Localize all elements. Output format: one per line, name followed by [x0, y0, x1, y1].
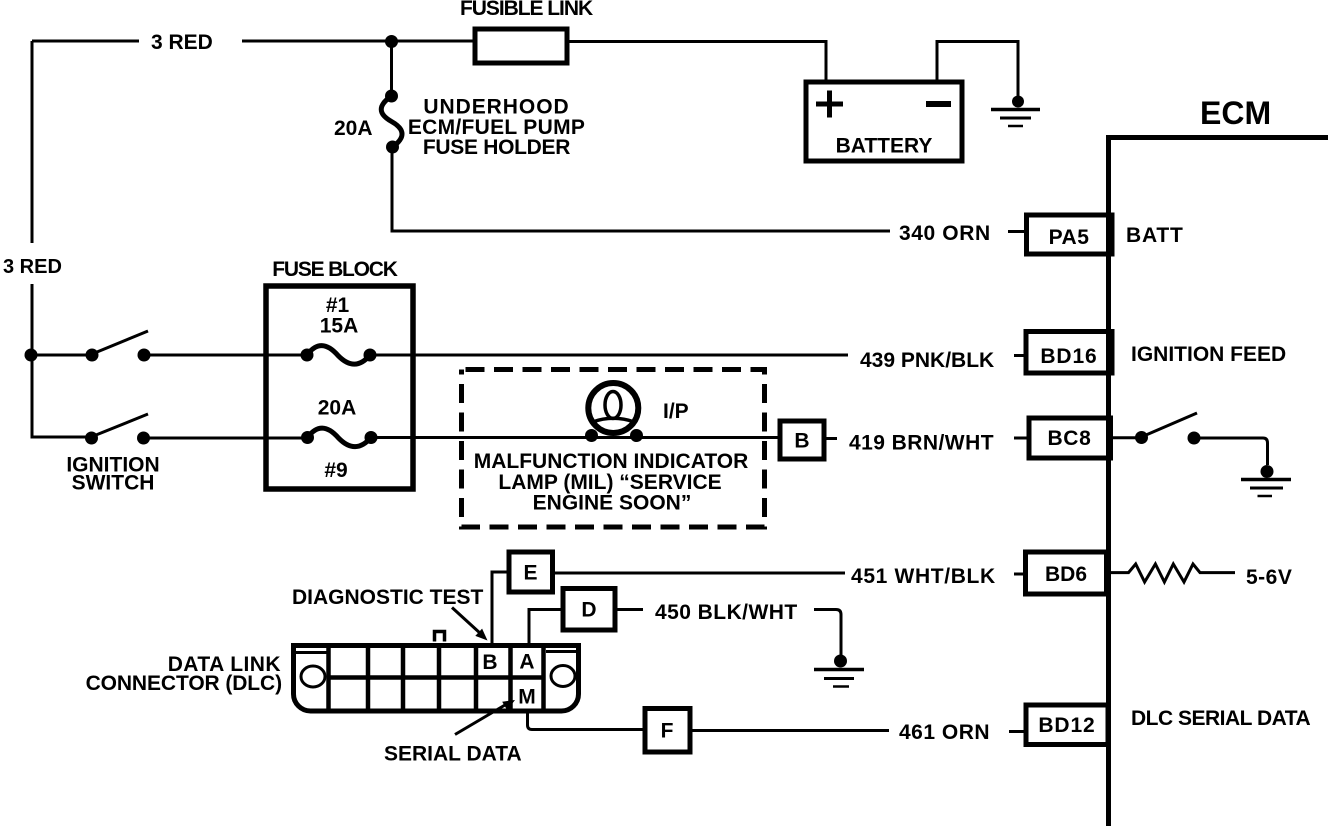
wire B lead right: [824, 437, 837, 440]
DLC grid: [329, 646, 544, 712]
wire 450 to ground: [814, 610, 841, 656]
wire fusible link to battery: [567, 42, 826, 83]
node fuse holder top: [385, 90, 398, 103]
ignition switch pole 2: [85, 414, 150, 445]
arrow diagnostic test to pin B: [452, 608, 488, 641]
fuse #1 15A: [301, 346, 377, 365]
switch inside ECM (BC8 to ground): [1111, 413, 1268, 465]
arrow serial data to pin M: [455, 700, 515, 735]
connector D (in-line): [563, 589, 615, 631]
wire lead dash to BD6: [1014, 573, 1026, 576]
label MALFUNCTION INDICATOR LAMP (MIL) "SERVICE ENGINE SOON": [474, 450, 749, 515]
svg-text:BD12: BD12: [1038, 714, 1095, 737]
svg-text:FUSIBLE LINK: FUSIBLE LINK: [460, 0, 593, 20]
DLC left cap line: [296, 651, 328, 654]
battery minus terminal: [926, 101, 951, 107]
svg-text:I/P: I/P: [663, 400, 689, 423]
svg-text:BD6: BD6: [1045, 563, 1087, 586]
svg-text:ENGINE SOON”: ENGINE SOON”: [533, 492, 692, 515]
svg-text:BATT: BATT: [1126, 224, 1184, 247]
svg-text:20A: 20A: [334, 117, 373, 140]
svg-text:5-6V: 5-6V: [1246, 566, 1292, 589]
svg-text:SWITCH: SWITCH: [72, 472, 155, 495]
svg-text:BATTERY: BATTERY: [836, 135, 933, 158]
fuse 20A underhood holder: [381, 96, 402, 147]
wire battery negative to ground: [937, 42, 1018, 98]
svg-text:A: A: [519, 651, 534, 674]
battery plus terminal: [816, 91, 843, 118]
wire DLC pin M to F: [528, 711, 646, 730]
ground G2: [1241, 465, 1291, 496]
svg-text:BC8: BC8: [1047, 427, 1091, 450]
svg-text:461 ORN: 461 ORN: [899, 721, 990, 744]
svg-text:CONNECTOR (DLC): CONNECTOR (DLC): [86, 672, 282, 695]
fuse #9 20A: [301, 428, 378, 447]
resistor pull-up 5-6V: [1111, 564, 1235, 582]
wire top-left horizontal (3 RED feed): [32, 40, 475, 43]
node lamp left: [585, 429, 598, 442]
fuse block outline: [266, 286, 413, 489]
svg-text:BD16: BD16: [1040, 345, 1097, 368]
svg-text:SERIAL DATA: SERIAL DATA: [384, 743, 522, 766]
connector B (in-line): [780, 421, 824, 459]
svg-text:450 BLK/WHT: 450 BLK/WHT: [655, 601, 798, 624]
DLC left mounting hole: [301, 666, 325, 687]
svg-text:FUSE BLOCK: FUSE BLOCK: [272, 258, 398, 281]
wire switch1 to fuse block: [144, 354, 307, 357]
ECM module outline: [1109, 138, 1328, 827]
node lamp right: [630, 429, 643, 442]
svg-text:E: E: [523, 562, 537, 585]
svg-text:IGNITION FEED: IGNITION FEED: [1131, 343, 1286, 366]
lamp MIL: [588, 383, 638, 433]
DLC connector body: [294, 646, 579, 712]
wire fuse1 to BD16 (439 PNK/BLK): [370, 354, 848, 357]
wire lead dash to BD16: [1014, 354, 1026, 357]
node left rail junction: [25, 349, 38, 362]
wire E left lead down to DLC pin B: [492, 572, 509, 643]
wire fuse holder to PA5 (340 ORN): [392, 147, 890, 231]
svg-text:M: M: [518, 686, 536, 709]
DLC right cap line: [546, 650, 576, 653]
svg-text:20A: 20A: [318, 397, 357, 420]
connector pin BD16: [1026, 332, 1112, 374]
svg-text:419 BRN/WHT: 419 BRN/WHT: [849, 432, 994, 455]
svg-text:B: B: [482, 651, 497, 674]
svg-text:MALFUNCTION INDICATOR: MALFUNCTION INDICATOR: [474, 450, 749, 473]
connector pin BC8: [1029, 418, 1111, 458]
svg-text:451 WHT/BLK: 451 WHT/BLK: [851, 565, 996, 588]
svg-text:DIAGNOSTIC TEST: DIAGNOSTIC TEST: [292, 586, 484, 609]
wire left rail to ignition switch 1: [32, 354, 86, 357]
wire E to BD6 (451 WHT/BLK): [553, 572, 846, 575]
svg-text:3 RED: 3 RED: [3, 256, 62, 278]
connector pin BD6: [1026, 552, 1107, 594]
wire switch2 to fuse block: [144, 437, 308, 440]
svg-text:FUSE HOLDER: FUSE HOLDER: [423, 136, 570, 159]
ground G1: [991, 96, 1040, 127]
svg-text:ECM: ECM: [1200, 95, 1271, 131]
connector pin PA5: [1027, 215, 1113, 254]
svg-text:F: F: [661, 720, 674, 743]
svg-text:PA5: PA5: [1049, 226, 1090, 249]
wire D right lead: [615, 608, 643, 611]
DLC key tab: [435, 632, 445, 642]
wire F to BD12 (461 ORN): [690, 729, 889, 732]
wire left rail down to switch 2: [32, 355, 86, 437]
wire left rail vertical (3 RED): [31, 41, 34, 355]
svg-text:340 ORN: 340 ORN: [899, 222, 991, 245]
connector pin BD12: [1026, 705, 1108, 745]
wire fuse2 through MIL to B (419): [371, 436, 780, 439]
DLC right mounting hole: [551, 666, 575, 687]
svg-text:B: B: [794, 430, 809, 453]
ignition switch pole 1: [86, 331, 151, 362]
battery BAT: [806, 82, 962, 161]
svg-text:15A: 15A: [320, 315, 359, 338]
svg-text:DLC SERIAL DATA: DLC SERIAL DATA: [1131, 707, 1310, 730]
wire D left lead down to DLC pin A: [529, 610, 563, 644]
node junction at fusible link tap: [385, 35, 398, 48]
svg-text:439 PNK/BLK: 439 PNK/BLK: [860, 349, 994, 372]
connector F (in-line): [645, 709, 690, 753]
svg-text:#9: #9: [324, 459, 347, 482]
svg-text:D: D: [581, 599, 596, 622]
ground G3: [814, 655, 864, 687]
wire junction down to fuse holder: [390, 42, 393, 97]
fusible link F2: [475, 29, 567, 63]
MIL dashed box: [462, 370, 765, 528]
node fuse holder bottom: [386, 141, 399, 154]
wire lead dash to PA5: [1008, 230, 1027, 233]
connector E (in-line): [509, 552, 553, 592]
svg-text:3 RED: 3 RED: [151, 31, 213, 54]
wire lead dash to BD12: [1009, 730, 1026, 733]
label UNDERHOOD ECM/FUEL PUMP FUSE HOLDER: [408, 96, 585, 160]
wire lead dash to BC8: [1014, 437, 1029, 440]
